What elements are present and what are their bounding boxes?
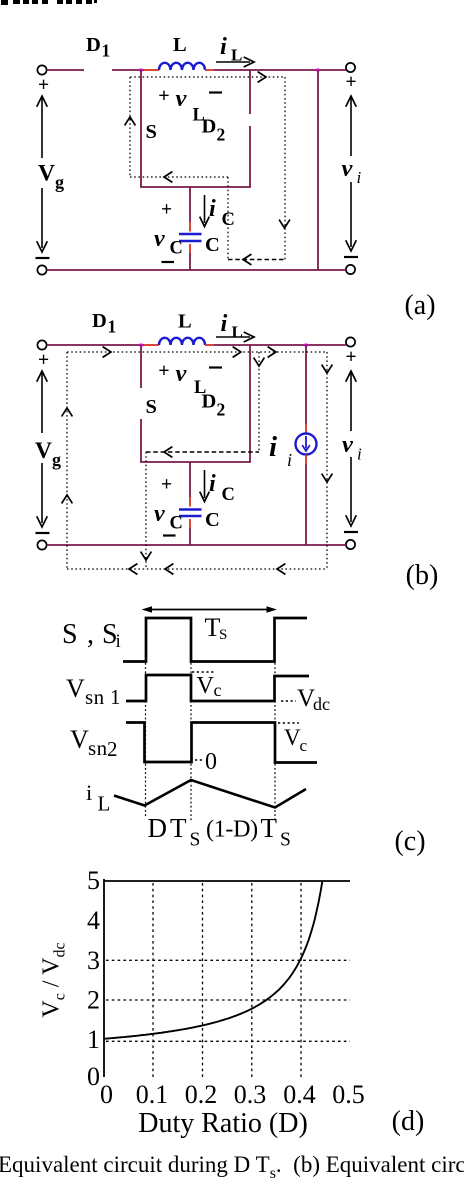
current source branch lower wire (b) <box>305 464 307 545</box>
bottom rail wire (b) <box>47 544 346 546</box>
bottom rail wire (a) <box>47 269 346 271</box>
graph top border at ratio 5 <box>104 880 350 882</box>
inner box bottom wire (a) <box>140 186 251 188</box>
capacitor current iC arrow (b) <box>204 470 206 498</box>
loop arrow down on inner left vertical (b) <box>141 552 152 560</box>
gridline duty 0.4 <box>300 883 302 1079</box>
loop arrow down on right segment (a) <box>279 220 290 228</box>
svg-text:(1-D): (1-D) <box>206 817 258 843</box>
terminal top-right (b) <box>346 337 355 346</box>
current loop dotted mid vertical segment (a) <box>227 177 229 260</box>
svg-text:0.2: 0.2 <box>185 1080 218 1109</box>
svg-text:S: S <box>280 830 291 851</box>
loop arrow left on outer bottom at x132 (b) <box>129 564 137 575</box>
capacitor C upper red lead (b) <box>189 497 191 507</box>
current source branch upper wire (b) <box>305 345 307 424</box>
current loop dotted right segment (a) <box>284 77 286 260</box>
loop arrow up on outer left at y410 (b) <box>62 408 73 416</box>
svg-text:0.3: 0.3 <box>234 1080 267 1109</box>
capacitor C plates (a) <box>179 233 202 236</box>
outer current loop dotted top segment (b) <box>67 351 327 353</box>
current source lower red lead (b) <box>305 455 307 465</box>
svg-text:dc: dc <box>313 694 330 714</box>
junction node at switch top (a) <box>140 69 143 72</box>
svg-text:i: i <box>357 168 362 187</box>
current loop dotted left segment (a) <box>129 77 131 177</box>
svg-text:+: + <box>158 85 169 107</box>
svg-text:(d): (d) <box>392 1106 425 1137</box>
capacitor C lower red lead (b) <box>189 519 191 528</box>
y-axis title Vc/Vdc <box>39 942 69 1017</box>
svg-text:5: 5 <box>87 866 100 895</box>
terminal bottom-left (a) <box>37 265 46 274</box>
terminal bottom-right (b) <box>346 540 355 549</box>
svg-text:S: S <box>146 121 157 143</box>
source Vg up arrow (b) <box>41 373 43 433</box>
output vi minus sign (a) <box>344 256 358 258</box>
svg-text:0: 0 <box>87 1062 100 1091</box>
svg-text:,: , <box>87 619 94 650</box>
switch S (off) upper wire segment (b) <box>140 345 142 388</box>
gridline ratio 2 <box>106 999 350 1001</box>
output vi up arrow (a) <box>350 98 352 156</box>
capacitor C lower red lead (a) <box>189 244 191 253</box>
svg-text:0.5: 0.5 <box>332 1080 365 1109</box>
inductor L right red lead (b) <box>205 344 214 346</box>
terminal top-left (a) <box>37 65 46 74</box>
outer current loop dotted left segment (b) <box>66 352 68 569</box>
svg-text:3: 3 <box>87 946 100 975</box>
current loop dotted top segment (a) <box>130 76 285 78</box>
wire top-left from terminal to diode D1 gap (a) <box>47 69 84 71</box>
source Vg minus sign (b) <box>36 532 50 534</box>
svg-text:S: S <box>146 396 157 418</box>
svg-text:v: v <box>154 226 165 252</box>
svg-text:c: c <box>214 680 222 700</box>
svg-text:2: 2 <box>217 125 226 145</box>
svg-text:+: + <box>158 360 169 382</box>
svg-text:C: C <box>170 514 183 534</box>
inductor L (b) <box>159 338 205 345</box>
current iL arrow (a) <box>216 61 250 63</box>
svg-text:T: T <box>261 813 278 843</box>
svg-text:2: 2 <box>107 737 118 761</box>
gridline duty 0.3 <box>251 883 253 1079</box>
Vc level dots row2 <box>192 671 214 673</box>
terminal top-left (b) <box>37 340 46 349</box>
source Vg up arrow (a) <box>41 98 43 158</box>
svg-text:V: V <box>38 161 55 187</box>
current loop dotted inner bottom segment (a) <box>130 176 228 178</box>
current source ii circle (b) <box>296 434 317 455</box>
svg-text:i: i <box>357 445 362 464</box>
inductor L left red lead (a) <box>144 69 159 71</box>
svg-text:i: i <box>269 431 277 463</box>
svg-text:4: 4 <box>87 906 100 935</box>
svg-text:C: C <box>222 485 235 505</box>
right rail wire (a) <box>317 70 319 270</box>
loop arrow left on outer bottom at x280 (b) <box>277 564 285 575</box>
loop arrow right on outer top at x272 (b) <box>268 347 276 358</box>
svg-text:0.1: 0.1 <box>136 1080 169 1109</box>
loop arrow left on dashed bottom (a) <box>243 254 251 265</box>
current iL arrow (b) <box>216 336 250 338</box>
output vi down arrow (b) <box>350 457 352 522</box>
gridline duty 0.1 <box>152 883 154 1079</box>
svg-text:+: + <box>345 72 356 93</box>
inner box bottom wire (b) <box>140 461 251 463</box>
source Vg minus sign (a) <box>36 257 50 259</box>
svg-text:1: 1 <box>102 41 111 61</box>
timing guide dotted vertical at DTs start <box>145 663 147 816</box>
terminal top-right (a) <box>346 63 355 72</box>
svg-text:i: i <box>209 196 216 222</box>
inductor L right red lead (a) <box>205 69 214 71</box>
wire top-right from inductor to right rail and terminal (a) <box>214 69 346 71</box>
snubber voltage Vsn1 trace <box>126 675 309 701</box>
svg-text:g: g <box>52 450 61 470</box>
Vdc level dots <box>281 700 296 702</box>
svg-text:V: V <box>284 725 301 750</box>
source Vg down arrow (b) <box>41 463 43 523</box>
svg-text:L: L <box>231 46 242 65</box>
svg-text:C: C <box>170 239 183 259</box>
svg-text:V: V <box>66 674 85 703</box>
svg-text:v: v <box>154 501 165 527</box>
svg-text:i: i <box>287 450 292 470</box>
loop arrow left on inner bottom (a) <box>164 172 172 183</box>
gridline duty 0.2 <box>202 883 204 1079</box>
current source upper red lead (b) <box>305 424 307 434</box>
source Vg down arrow (a) <box>41 188 43 248</box>
inductor current iL waveform trace <box>114 780 306 808</box>
switch S wire closed left vertical (a) <box>140 70 142 187</box>
timing guide dotted vertical at Ts end <box>274 663 276 819</box>
svg-text:1: 1 <box>108 317 117 337</box>
wire top-right to terminal (b) <box>214 344 346 346</box>
svg-text:L: L <box>173 34 187 56</box>
loop arrow down on inner right vertical (b) <box>254 358 265 366</box>
outer current loop dotted bottom segment (b) <box>67 568 327 570</box>
loop arrow down on outer right at y370 (b) <box>322 365 333 373</box>
svg-text:2: 2 <box>217 400 226 420</box>
svg-text:v: v <box>176 360 188 387</box>
gridline ratio 1 <box>106 1040 350 1042</box>
current loop dashed bottom segment (a) <box>228 259 285 261</box>
loop arrow right on outer top at x107 (b) <box>103 347 111 358</box>
output vi minus sign (b) <box>344 531 358 533</box>
junction node at right rail top (a) <box>317 69 320 72</box>
svg-text:i: i <box>221 310 228 337</box>
svg-text:Equivalent circuit during D Ts: Equivalent circuit during D Ts. (b) Equi… <box>0 1152 464 1178</box>
svg-text:T: T <box>170 813 187 843</box>
svg-text:(a): (a) <box>404 290 435 321</box>
svg-text:Vc / Vdc: Vc / Vdc <box>39 942 69 1017</box>
inductor voltage minus sign (a) <box>209 91 222 93</box>
capacitor branch upper wire (a) <box>189 187 191 222</box>
current source ii arrow inside (b) <box>305 436 307 449</box>
svg-text:1: 1 <box>110 685 121 709</box>
Ts period double arrow <box>145 609 274 611</box>
svg-text:2: 2 <box>87 986 100 1015</box>
terminal bottom-left (b) <box>37 540 46 549</box>
svg-text:V: V <box>35 438 52 464</box>
svg-text:V: V <box>70 725 89 754</box>
svg-text:L: L <box>98 792 111 816</box>
diode D2 wire upper segment (a) <box>249 70 251 114</box>
diode D2 conducting wire (b) <box>249 345 251 462</box>
svg-text:v: v <box>342 155 354 182</box>
capacitor branch lower wire (b) <box>189 528 191 545</box>
svg-text:L: L <box>193 106 205 126</box>
svg-text:g: g <box>55 172 64 192</box>
inductor voltage minus sign (b) <box>209 366 222 368</box>
capacitor branch upper wire (b) <box>189 462 191 497</box>
junction node at switch top (b) <box>140 344 143 347</box>
svg-text:+: + <box>38 75 49 96</box>
svg-text:1: 1 <box>87 1025 100 1054</box>
capacitor voltage minus sign (b) <box>163 534 176 536</box>
svg-text:i: i <box>86 780 92 805</box>
capacitor C plates (b) <box>179 508 202 511</box>
Vc level dots row3 <box>278 722 299 724</box>
loop arrow up on left segment (a) <box>125 117 136 125</box>
svg-text:+: + <box>161 475 172 496</box>
svg-text:0: 0 <box>205 749 217 775</box>
voltage ratio curve <box>104 881 322 1039</box>
svg-text:c: c <box>300 736 308 755</box>
loop arrow left on outer bottom at x168 (b) <box>165 564 173 575</box>
loop arrow right on top segment (a) <box>258 72 266 83</box>
svg-text:L: L <box>194 378 206 398</box>
inductor L (a) <box>159 63 205 70</box>
outer current loop dotted right segment (b) <box>326 352 328 569</box>
timing guide dotted vertical at DTs end <box>190 663 192 821</box>
svg-text:0: 0 <box>100 1080 113 1109</box>
loop arrow left on inner dashed bottom (b) <box>164 447 172 458</box>
snubber voltage Vsn2 trace <box>126 723 317 763</box>
svg-text:D: D <box>92 310 107 332</box>
svg-text:i: i <box>220 33 227 60</box>
svg-text:L: L <box>232 323 243 342</box>
top wire with diode D1 conducting (b) <box>47 344 144 346</box>
svg-text:S: S <box>62 619 78 650</box>
terminal bottom-right (a) <box>346 265 355 274</box>
svg-text:0.4: 0.4 <box>283 1080 316 1109</box>
wire from D1 gap to inductor (a) <box>112 69 144 71</box>
output vi down arrow (a) <box>350 182 352 247</box>
svg-text:S: S <box>219 627 227 643</box>
svg-text:i: i <box>116 631 121 652</box>
svg-text:i: i <box>209 471 216 497</box>
svg-text:+: + <box>345 347 356 368</box>
svg-text:(c): (c) <box>394 826 425 857</box>
loop arrow right on outer top at x237 (b) <box>233 347 241 358</box>
svg-text:v: v <box>342 431 354 458</box>
svg-text:D: D <box>86 34 101 56</box>
clipped text fragment at top of page <box>1 0 8 5</box>
svg-text:+: + <box>161 200 172 221</box>
svg-text:(b): (b) <box>406 560 439 591</box>
switch S (off) lower wire segment (b) <box>140 419 142 462</box>
svg-text:sn: sn <box>88 736 108 760</box>
capacitor current iC arrow (a) <box>204 195 206 223</box>
capacitor branch lower wire (a) <box>189 253 191 270</box>
svg-text:D: D <box>148 813 168 843</box>
zero level dots row3 <box>195 759 204 761</box>
capacitor voltage minus sign (a) <box>162 261 175 263</box>
svg-text:L: L <box>178 311 192 333</box>
svg-text:S: S <box>190 830 201 851</box>
diode D2 (off) gap and lower segment (a) <box>249 126 251 187</box>
svg-text:+: + <box>38 350 49 371</box>
inner current loop dashed bottom segment (b) <box>146 451 259 453</box>
svg-text:C: C <box>205 509 220 531</box>
output vi up arrow (b) <box>350 373 352 431</box>
svg-text:Duty Ratio (D): Duty Ratio (D) <box>138 1108 308 1139</box>
svg-text:V: V <box>197 673 215 699</box>
capacitor C upper red lead (a) <box>189 222 191 232</box>
svg-text:sn: sn <box>85 685 105 709</box>
svg-text:C: C <box>205 234 220 256</box>
junction node at source top (b) <box>305 344 308 347</box>
inductor L left red lead (b) <box>144 344 159 346</box>
svg-text:v: v <box>176 85 188 112</box>
switch waveform S Si trace <box>123 618 307 662</box>
loop arrow up on outer left at y497 (b) <box>62 495 73 503</box>
graph y-axis <box>103 879 105 1077</box>
inner current loop dotted right vertical (b) <box>258 352 260 452</box>
gridline ratio 3 <box>106 959 350 961</box>
inner current loop dotted left vertical (b) <box>145 452 147 569</box>
loop arrow down on outer right at y479 (b) <box>322 474 333 482</box>
